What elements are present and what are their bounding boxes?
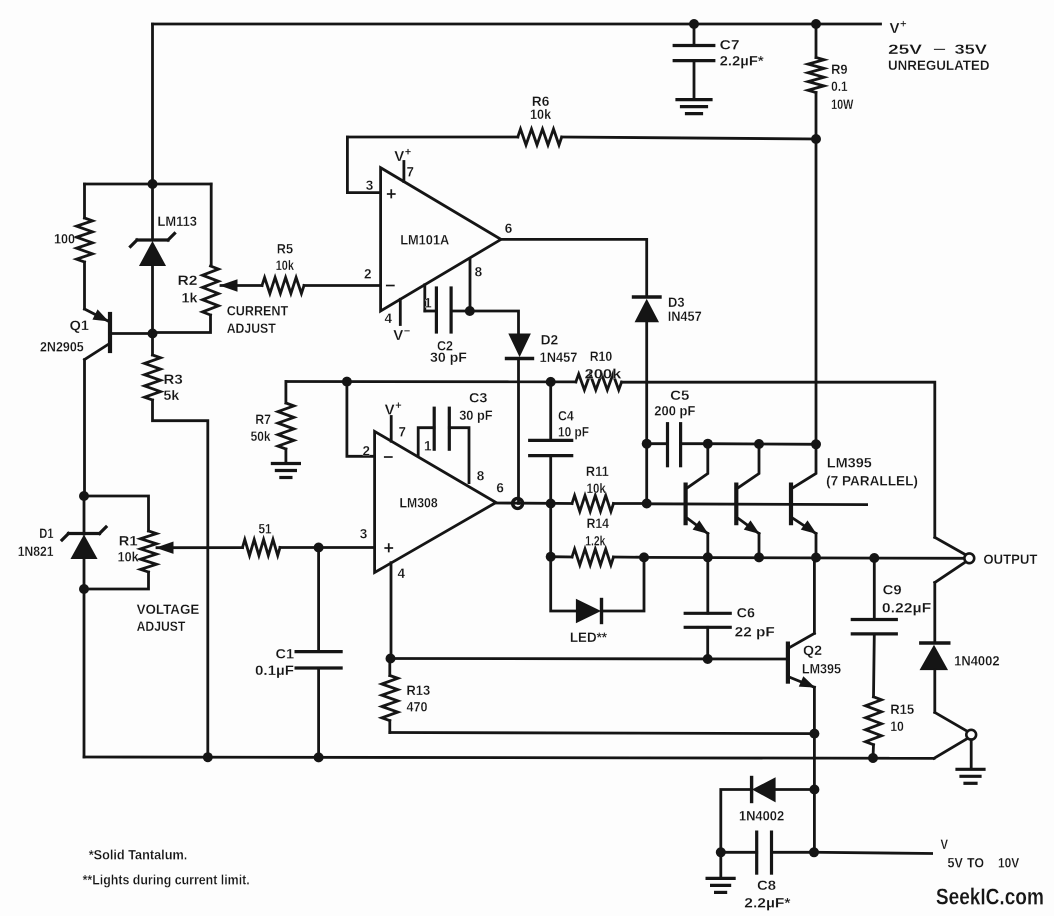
node Q1 base junction [148, 329, 158, 339]
wire link to R14 [549, 504, 552, 557]
node collector rail 3 [811, 439, 821, 449]
wire D1 to bottom rail [83, 589, 86, 757]
svg-text:1k: 1k [182, 290, 198, 306]
diode 1N4002 output clamp [920, 583, 999, 713]
svg-text:R5: R5 [277, 241, 293, 257]
transistor Q1 2N2905 [40, 309, 153, 360]
op-amp U1 LM101A [364, 168, 501, 311]
node R7-pin2 junction [342, 377, 352, 387]
svg-text:7: 7 [399, 425, 407, 440]
resistor 100 [54, 218, 93, 262]
svg-text:4: 4 [398, 566, 406, 581]
node bottom rail R3 [203, 752, 213, 762]
wire output rail [644, 556, 965, 560]
wire D2 to U2 output [517, 359, 520, 504]
svg-text:8: 8 [477, 469, 485, 484]
pin 7 V+ stub U2 [385, 400, 406, 441]
wire D3 to C5 node [645, 322, 648, 504]
svg-text:R2: R2 [178, 272, 198, 288]
node Q2 emitter junction [809, 729, 819, 739]
svg-text:C5: C5 [670, 387, 689, 403]
node C8 left [716, 847, 726, 857]
node R14 right [639, 552, 649, 562]
wire 100 to Q1 emitter [83, 262, 86, 309]
svg-text:R9: R9 [831, 61, 848, 77]
wire D2 branch top [470, 311, 519, 334]
ground C7 [677, 100, 711, 114]
svg-text:35V: 35V [955, 41, 988, 57]
svg-text:R10: R10 [590, 348, 613, 364]
node R14 left [546, 552, 556, 562]
wire left branch upper [83, 184, 86, 218]
svg-text:2: 2 [364, 267, 372, 282]
node pin4-R13 junction [386, 654, 396, 664]
resistor R7 50k [251, 382, 294, 464]
wire R13 to Q2 emitter [390, 733, 815, 734]
capacitor C4 10pF [530, 382, 590, 504]
capacitor C1 0.1uF [255, 548, 341, 758]
svg-text:R1: R1 [119, 533, 138, 549]
node U2 output donut [513, 498, 523, 508]
svg-text:22 pF: 22 pF [735, 624, 775, 640]
svg-text:VOLTAGE: VOLTAGE [137, 601, 200, 617]
svg-text:0.1µF: 0.1µF [255, 662, 294, 678]
transistor LM395 no.3 [791, 444, 816, 557]
resistor R11 10k [572, 463, 647, 512]
svg-text:51: 51 [259, 521, 272, 537]
capacitor C7 2.2uF [674, 24, 764, 100]
node output rail 1 [703, 552, 713, 562]
op-amp U2 LM308 [360, 431, 496, 572]
node C2-pin8 junction [465, 306, 475, 316]
wire R3 to bottom rail [153, 400, 208, 757]
svg-text:LM113: LM113 [158, 213, 198, 229]
svg-text:2.2µF*: 2.2µF* [744, 895, 791, 911]
wire output bowtie top [935, 537, 965, 554]
capacitor C6 22pF [685, 557, 775, 659]
svg-text:+: + [386, 184, 397, 204]
svg-text:50k: 50k [251, 428, 271, 444]
node C1 top [314, 543, 324, 553]
wire top-left drop [151, 24, 154, 184]
svg-text:C6: C6 [737, 605, 756, 621]
svg-text:10W: 10W [831, 96, 854, 112]
wire U2 pin4 to Q2 base [391, 657, 788, 660]
svg-text:2.2µF*: 2.2µF* [720, 53, 765, 69]
svg-text:10k: 10k [530, 106, 551, 122]
svg-text:C8: C8 [757, 877, 776, 893]
svg-text:C3: C3 [469, 390, 488, 406]
diode D3 IN457 [634, 294, 702, 324]
potentiometer R2 1k [153, 266, 219, 333]
wire junction horizontal arm [85, 183, 212, 186]
svg-text:V: V [941, 836, 949, 852]
resistor R10 200k [576, 348, 622, 390]
svg-text:C1: C1 [276, 646, 295, 662]
transistor LM395 no.2 [736, 444, 759, 557]
node bottom rail C1 [314, 752, 324, 762]
svg-text:UNREGULATED: UNREGULATED [888, 57, 990, 73]
zener diode LM113 [131, 184, 198, 334]
svg-text:ADJUST: ADJUST [227, 320, 276, 336]
pin 8 stub U1 [470, 259, 483, 312]
wire feedback rail left [286, 380, 576, 383]
svg-text:6: 6 [496, 481, 504, 496]
node C8 right [809, 847, 819, 857]
svg-text:LM308: LM308 [400, 495, 438, 511]
svg-text:3: 3 [360, 527, 368, 542]
capacitor C3 30pF [418, 390, 493, 484]
svg-text:+: + [384, 538, 395, 558]
resistor R13 470 [382, 659, 430, 733]
svg-text:(7 PARALLEL): (7 PARALLEL) [826, 473, 918, 489]
svg-text:4: 4 [385, 311, 393, 326]
node C9 top [869, 553, 879, 563]
svg-text:5V: 5V [948, 855, 964, 871]
wire V+ top rail [153, 23, 881, 26]
zener diode D1 1N821 [18, 496, 106, 589]
svg-text:C9: C9 [883, 582, 902, 598]
wire rail to lower terminal [934, 739, 967, 758]
pin 7 V+ stub U1 [394, 147, 414, 182]
node C4 top [546, 377, 556, 387]
node D1 bottom [79, 584, 89, 594]
pin 4 V- stub U1 [385, 299, 411, 344]
svg-text:1.2k: 1.2k [585, 533, 605, 549]
node C6 bottom [703, 654, 713, 664]
wire output bowtie bottom [935, 563, 965, 583]
capacitor C5 200pF [647, 387, 708, 466]
svg-text:10k: 10k [276, 257, 294, 273]
svg-text:25V: 25V [888, 41, 923, 57]
svg-text:*Solid Tantalum.: *Solid Tantalum. [89, 847, 188, 863]
resistor R9 0.1 10W [808, 24, 854, 444]
ground lower terminal [957, 769, 984, 783]
svg-text:5k: 5k [164, 387, 180, 403]
note lights during current limit [83, 872, 250, 888]
svg-text:1: 1 [424, 439, 432, 454]
node collector rail 2 [754, 439, 764, 449]
logo SeekIC.com [936, 884, 1044, 910]
svg-text:2: 2 [363, 444, 371, 459]
svg-text:1: 1 [424, 296, 432, 311]
svg-text:1N4002: 1N4002 [739, 808, 784, 824]
pin 4 stub U2 [391, 563, 406, 659]
node output rail 3 [811, 553, 821, 563]
svg-text:R14: R14 [587, 515, 609, 531]
wire bottom rail [84, 757, 934, 758]
node snubber diode junction [809, 785, 819, 795]
node output rail 2 [754, 552, 764, 562]
svg-text:LM395: LM395 [802, 661, 841, 677]
node collector rail 1 [703, 439, 713, 449]
wire clamp to lower terminal [935, 712, 967, 731]
svg-text:C7: C7 [720, 37, 740, 53]
svg-text:R13: R13 [407, 682, 431, 698]
svg-text:30 pF: 30 pF [430, 349, 467, 365]
wire V output [814, 852, 932, 853]
svg-text:3: 3 [366, 178, 374, 193]
resistor R14 1.2k [551, 515, 644, 565]
svg-text:–: – [933, 40, 946, 56]
svg-text:R3: R3 [164, 371, 183, 387]
resistor 51 [243, 521, 375, 556]
node R6-R9 junction [811, 134, 821, 144]
wire base rail [647, 502, 867, 506]
svg-text:1N821: 1N821 [18, 543, 54, 559]
svg-text:1N457: 1N457 [540, 349, 578, 365]
svg-text:10V: 10V [998, 855, 1020, 871]
svg-text:2N2905: 2N2905 [40, 339, 84, 355]
svg-text:R11: R11 [586, 463, 609, 479]
node C7 top [689, 19, 699, 29]
capacitor C2 30pF [425, 288, 470, 365]
svg-text:10k: 10k [118, 549, 139, 565]
svg-text:7: 7 [407, 165, 415, 180]
note solid tantalum [89, 847, 188, 863]
transistor Q2 LM395 [788, 558, 841, 853]
svg-text:200 pF: 200 pF [654, 403, 696, 419]
node C4 bottom [546, 499, 556, 509]
svg-text:10: 10 [890, 718, 904, 734]
svg-text:10 pF: 10 pF [558, 424, 589, 440]
svg-text:Q2: Q2 [803, 642, 822, 658]
svg-text:100: 100 [54, 231, 75, 247]
svg-text:ADJUST: ADJUST [137, 618, 186, 634]
svg-text:1N4002: 1N4002 [954, 652, 1000, 668]
wire collector rail [708, 442, 816, 445]
terminal V+ unregulated [888, 19, 990, 74]
svg-text:D1: D1 [39, 525, 53, 541]
svg-text:**Lights during current limit.: **Lights during current limit. [83, 872, 250, 888]
resistor R5 10k [262, 241, 381, 294]
capacitor C9 0.22uF [852, 558, 931, 697]
terminal output return [966, 730, 976, 740]
svg-text:30 pF: 30 pF [459, 407, 493, 423]
svg-text:0.22µF: 0.22µF [882, 600, 932, 616]
svg-text:C4: C4 [558, 408, 574, 424]
node D1 top [79, 491, 89, 501]
node bottom rail R15 [868, 753, 878, 763]
svg-text:0.1: 0.1 [831, 78, 848, 94]
node R11 right junction [642, 499, 652, 509]
svg-text:CURRENT: CURRENT [227, 303, 289, 319]
svg-text:D2: D2 [541, 332, 559, 348]
terminal OUTPUT [964, 551, 1037, 567]
capacitor C8 2.2uF [721, 832, 814, 910]
svg-text:200k: 200k [585, 366, 622, 382]
node C5 left [642, 439, 652, 449]
label CURRENT ADJUST [227, 303, 289, 337]
svg-text:−: − [385, 276, 396, 296]
pin 1 stub U1 [424, 285, 432, 311]
wire U1 output [501, 221, 647, 297]
svg-text:10k: 10k [587, 480, 606, 496]
wire U2 pin2 input [347, 382, 375, 457]
svg-text:SeekIC.com: SeekIC.com [936, 884, 1044, 910]
svg-text:LED**: LED** [570, 629, 608, 645]
potentiometer R1 10k [84, 496, 157, 589]
svg-text:R15: R15 [890, 701, 914, 717]
wire feedback rail right [622, 382, 935, 537]
wire R2 top [210, 184, 213, 266]
resistor R15 10 [866, 697, 915, 758]
svg-text:R7: R7 [255, 411, 271, 427]
svg-text:TO: TO [967, 855, 984, 871]
wire 51 input [157, 542, 243, 553]
svg-text:−: − [383, 447, 394, 467]
svg-text:OUTPUT: OUTPUT [983, 551, 1037, 567]
wire U2 output [496, 481, 572, 504]
ground R7 [272, 464, 299, 478]
ground C8 [707, 852, 734, 892]
node top-left junction [148, 179, 158, 189]
wire lower terminal ground stub [970, 740, 973, 768]
resistor R6 10k [347, 93, 816, 145]
svg-text:LM395: LM395 [827, 455, 872, 471]
wire R5 wiper arrow [221, 280, 262, 291]
diode 1N4002 reverse protection [721, 778, 815, 853]
diode D2 1N457 [507, 332, 578, 366]
resistor R3 5k [145, 334, 183, 404]
svg-text:IN457: IN457 [668, 308, 702, 324]
transistor LM395 no.1 [686, 444, 708, 558]
svg-text:470: 470 [407, 699, 428, 715]
terminal V 5V TO 10V [941, 836, 1020, 871]
wire U1 pin3 input [347, 137, 380, 193]
svg-text:Q1: Q1 [70, 317, 90, 333]
label LM395 7 PARALLEL [826, 455, 918, 489]
svg-text:8: 8 [475, 265, 483, 280]
wire Q1 collector drop [83, 360, 86, 496]
node R9 top [811, 19, 821, 29]
diode LED [551, 557, 644, 645]
label VOLTAGE ADJUST [137, 601, 200, 634]
svg-text:LM101A: LM101A [400, 232, 449, 248]
svg-text:6: 6 [505, 221, 513, 236]
